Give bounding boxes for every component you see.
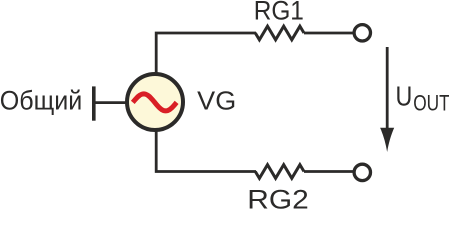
arrow head [380, 128, 394, 152]
svg-text:RG1: RG1 [254, 0, 304, 25]
arrow U_OUT line [386, 47, 389, 133]
svg-text:OUT: OUT [413, 90, 449, 115]
svg-text:U: U [396, 81, 413, 112]
resistor RG2 [255, 165, 304, 179]
wire source bottom to corner [156, 130, 256, 172]
port bar (common terminal) [92, 86, 96, 120]
svg-text:VG: VG [197, 86, 236, 116]
wire source top to corner [156, 33, 256, 74]
wire RG1 to top terminal [304, 32, 353, 35]
svg-text:Общий: Общий [0, 85, 82, 115]
top output terminal [354, 25, 370, 41]
source VG circle [127, 74, 183, 130]
wire from common bar to source [95, 101, 128, 104]
wire RG2 to bottom terminal [304, 170, 353, 173]
resistor RG1 [255, 26, 304, 40]
svg-text:RG2: RG2 [247, 185, 309, 211]
sine wave [133, 94, 177, 111]
bottom output terminal [354, 164, 370, 180]
